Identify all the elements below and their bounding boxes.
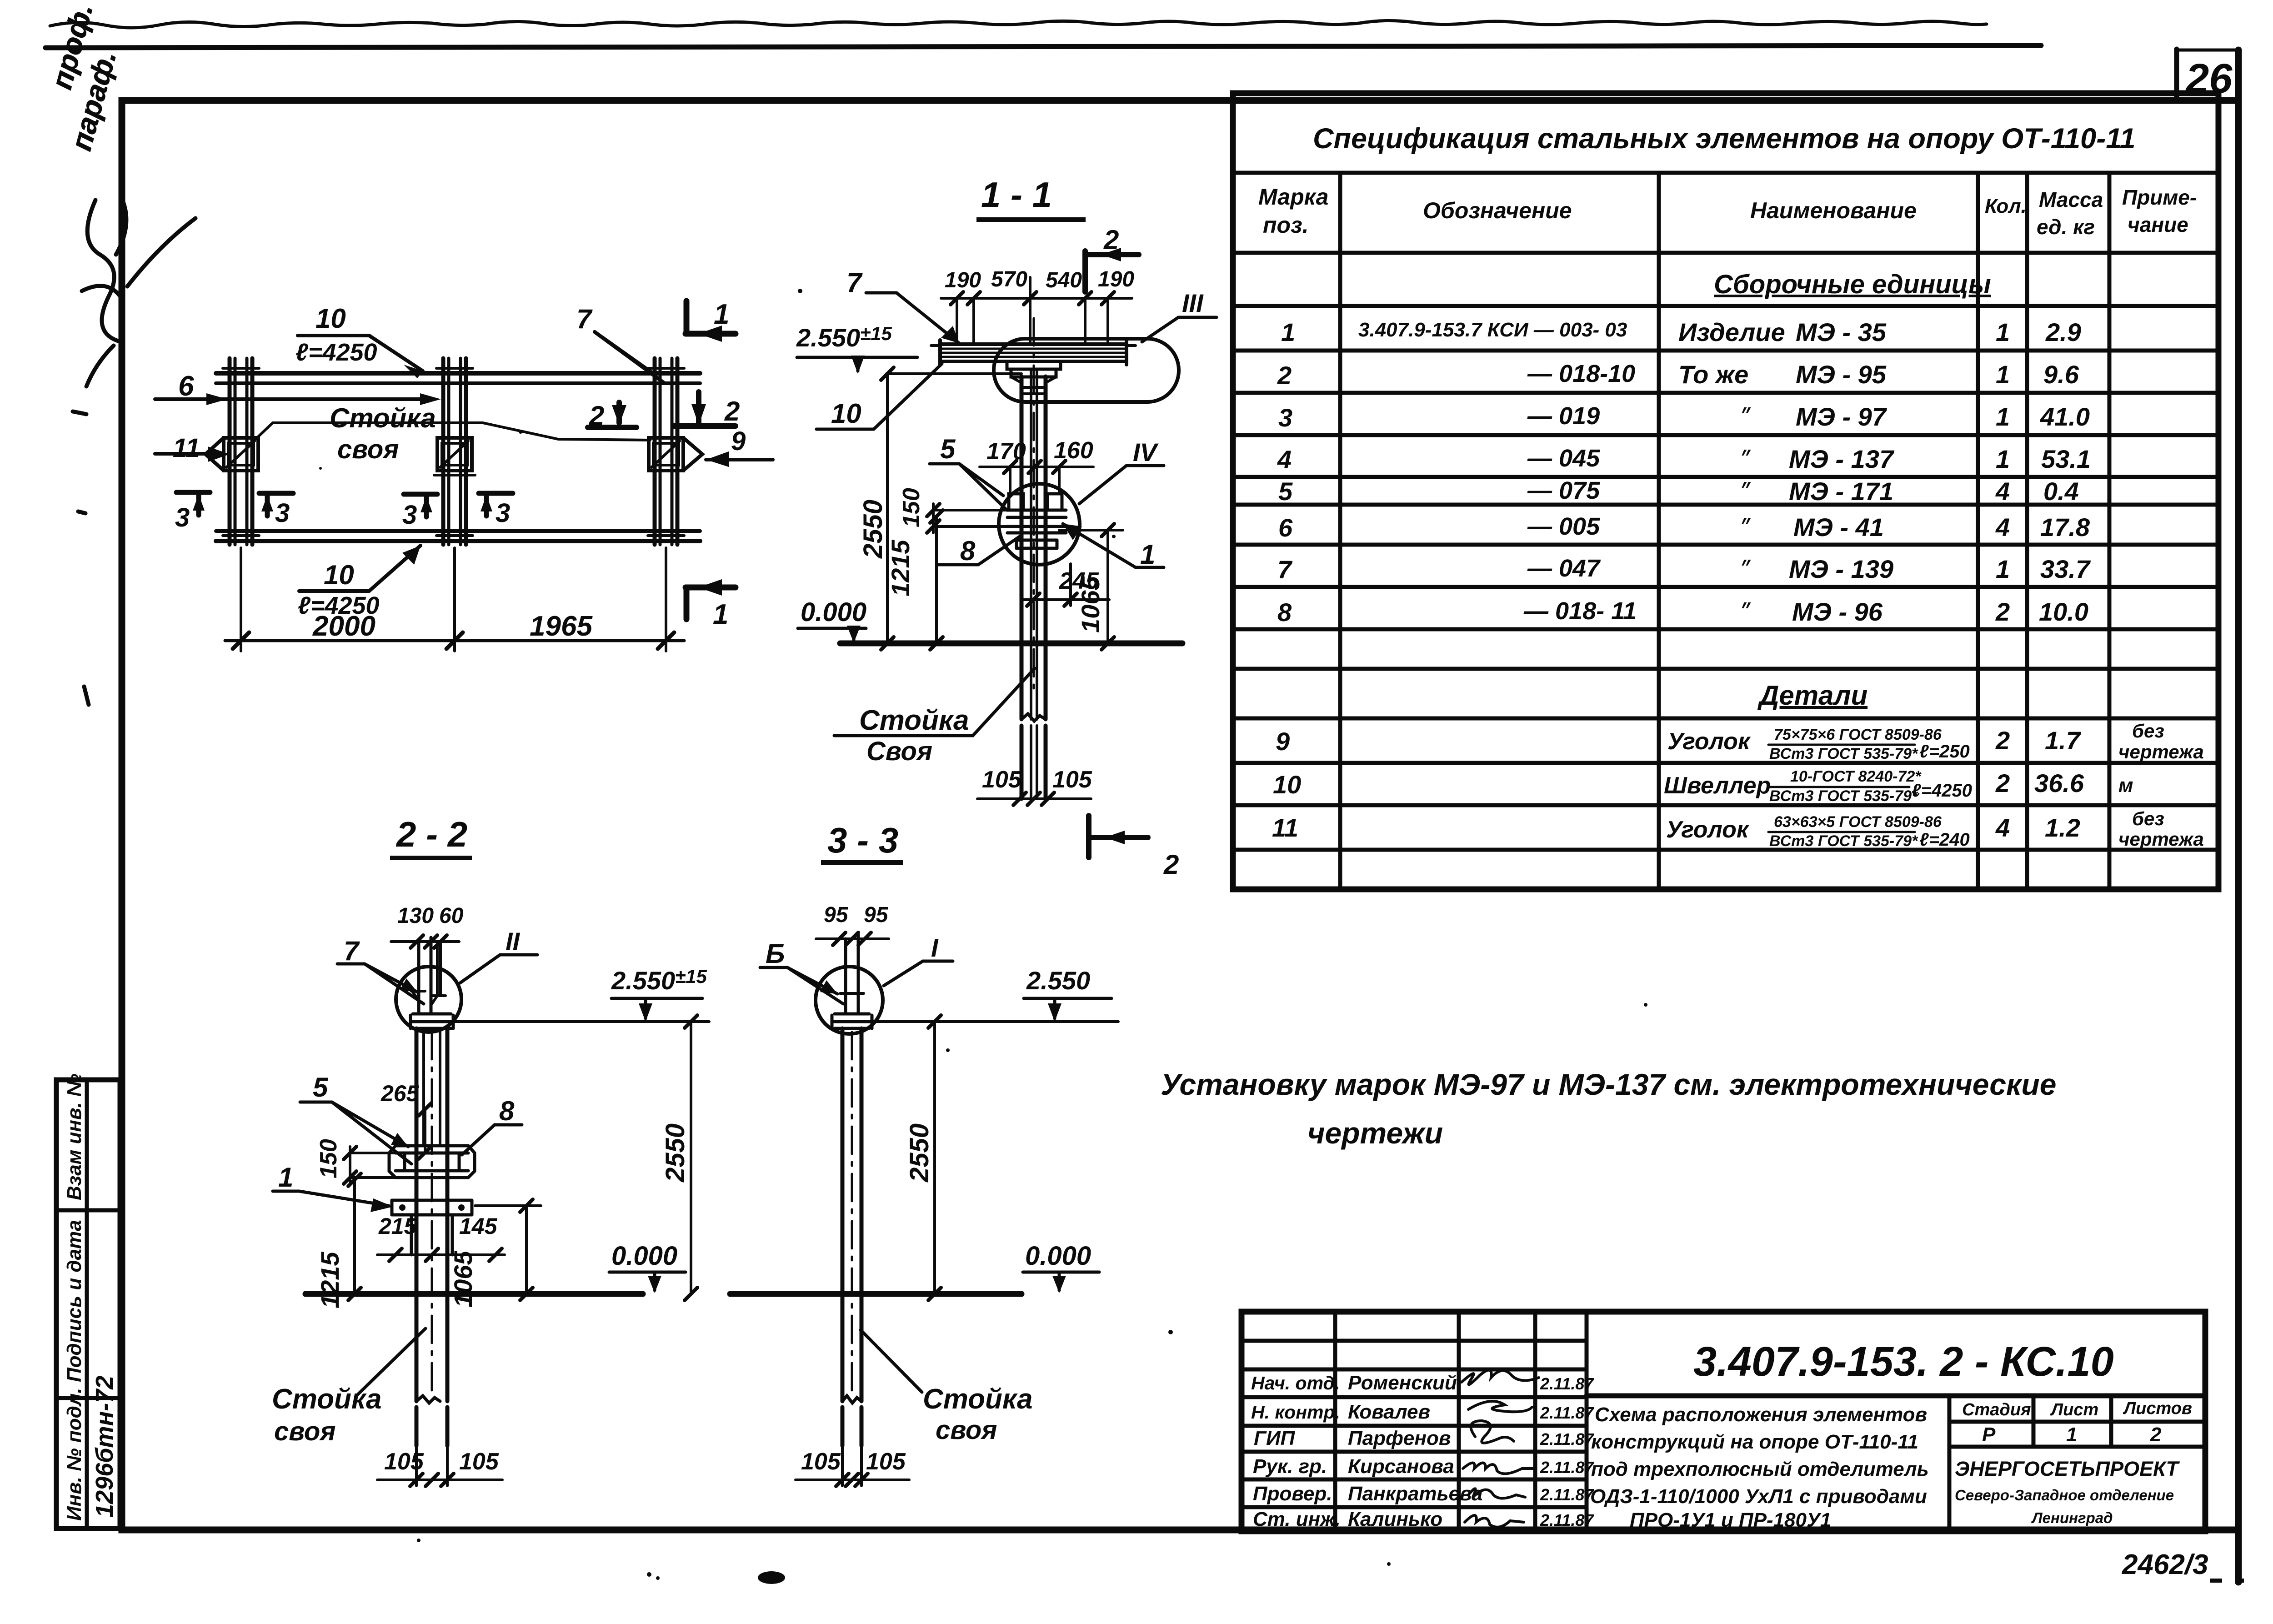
svg-text:Подпись и дата: Подпись и дата	[63, 1220, 85, 1382]
level 2.550±15	[796, 323, 1021, 374]
dim 105 105 (1-1)	[977, 767, 1092, 805]
svg-text:4: 4	[1277, 445, 1292, 474]
svg-text:Б: Б	[766, 938, 785, 969]
svg-text:1 - 1: 1 - 1	[981, 175, 1052, 215]
svg-text:95: 95	[824, 903, 849, 927]
row lines	[1233, 304, 2218, 308]
svg-text:״: ״	[1739, 480, 1751, 501]
svg-text:2: 2	[1995, 726, 2010, 755]
top dims 190 570 540 190	[941, 267, 1134, 344]
svg-text:Кирсанова: Кирсанова	[1348, 1455, 1454, 1478]
svg-text:Роменский: Роменский	[1348, 1372, 1457, 1394]
post pile 1 (stойка)	[223, 358, 259, 545]
title 2-2	[390, 814, 472, 860]
svg-text:3: 3	[496, 498, 510, 528]
level 2.550 (3-3)	[872, 966, 1118, 1022]
svg-text:Провер.: Провер.	[1253, 1483, 1332, 1505]
svg-text:чертежа: чертежа	[2118, 741, 2204, 762]
label 1 (1-1)	[1063, 524, 1164, 570]
svg-text:Калинько: Калинько	[1348, 1508, 1442, 1530]
svg-text:без: без	[2132, 720, 2164, 742]
svg-text:2.550: 2.550	[1026, 966, 1090, 995]
svg-text:IV: IV	[1133, 438, 1159, 466]
ground line (1-1)	[840, 641, 1182, 647]
svg-text:своя: своя	[337, 435, 399, 464]
svg-text:— 018-10: — 018-10	[1527, 360, 1635, 387]
svg-text:1: 1	[713, 599, 728, 630]
label 8 (1-1)	[939, 536, 1020, 566]
clamp (2-2, pos.5/8)	[389, 1146, 475, 1178]
svg-text:Марка: Марка	[1258, 184, 1328, 210]
label 7 (1-1)	[846, 267, 959, 343]
svg-text:7: 7	[344, 936, 360, 966]
note text	[1161, 1068, 2056, 1150]
svg-text:чертежа: чертежа	[2118, 828, 2204, 850]
label 11 with arrow	[155, 433, 230, 463]
svg-text:Листов: Листов	[2123, 1399, 2192, 1418]
svg-text:Ковалев: Ковалев	[1348, 1401, 1430, 1423]
svg-text:Приме-: Приме-	[2122, 185, 2197, 209]
svg-text:105: 105	[459, 1449, 499, 1475]
svg-text:— 019: — 019	[1527, 402, 1600, 430]
plan dimension 2000 / 1965	[225, 548, 684, 651]
svg-text:МЭ - 41: МЭ - 41	[1793, 513, 1884, 541]
svg-text:2: 2	[1995, 597, 2010, 626]
svg-text:чертежи: чертежи	[1307, 1116, 1443, 1150]
detail circle IV	[999, 438, 1164, 565]
detail circle II	[396, 927, 537, 1032]
svg-text:6: 6	[178, 371, 194, 402]
specification table	[1233, 93, 2218, 889]
svg-text:Швеллер: Швеллер	[1664, 772, 1771, 799]
svg-text:Масса: Масса	[2039, 188, 2103, 211]
svg-text:2.9: 2.9	[2045, 318, 2081, 346]
svg-text:МЭ - 137: МЭ - 137	[1789, 445, 1895, 473]
svg-text:8: 8	[499, 1096, 515, 1126]
svg-text:ВСт3 ГОСТ 535-79*: ВСт3 ГОСТ 535-79*	[1769, 745, 1918, 762]
dim 265 (2-2)	[381, 1081, 431, 1159]
ground line (2-2)	[305, 1291, 643, 1297]
svg-text:41.0: 41.0	[2040, 402, 2090, 431]
detail balloon III	[994, 289, 1217, 402]
label 5 (1-1)	[930, 434, 1007, 510]
svg-text:Наименование: Наименование	[1750, 198, 1917, 223]
svg-text:״: ״	[1739, 448, 1751, 469]
svg-text:чание: чание	[2128, 213, 2188, 236]
svg-text:2 - 2: 2 - 2	[396, 814, 467, 854]
svg-text:ℓ=4250: ℓ=4250	[295, 339, 377, 366]
svg-text:Ленинград: Ленинград	[2031, 1509, 2113, 1526]
scan artifact wavy top edge	[50, 20, 1987, 28]
table title row line	[1233, 171, 2218, 175]
dim 2550 (2-2)	[661, 1015, 697, 1300]
svg-text:2: 2	[1277, 361, 1292, 390]
svg-text:Парфенов: Парфенов	[1348, 1427, 1451, 1449]
svg-text:2.11.87: 2.11.87	[1540, 1430, 1594, 1449]
svg-text:Стойка: Стойка	[859, 705, 969, 736]
svg-text:под трехполюсный отделитель: под трехполюсный отделитель	[1591, 1458, 1929, 1480]
0.000 (3-3)	[1023, 1241, 1099, 1293]
svg-text:1065: 1065	[449, 1251, 477, 1308]
svg-text:0.000: 0.000	[801, 597, 866, 627]
svg-text:ВСт3 ГОСТ 535-79*: ВСт3 ГОСТ 535-79*	[1769, 832, 1918, 850]
collar (3-3)	[832, 1014, 872, 1028]
label 7 (2-2)	[337, 936, 424, 1004]
dim 245	[1023, 564, 1109, 606]
svg-text:1: 1	[2066, 1424, 2077, 1446]
svg-text:Установку марок МЭ-97 и МЭ-137: Установку марок МЭ-97 и МЭ-137 см. элект…	[1161, 1068, 2056, 1101]
svg-text:своя: своя	[274, 1417, 335, 1446]
label Б (3-3)	[760, 938, 843, 1004]
svg-text:2.11.87: 2.11.87	[1540, 1485, 1594, 1504]
pole (2-2)	[416, 1028, 447, 1446]
post pile 2	[436, 358, 473, 545]
label 1 (2-2)	[273, 1162, 393, 1212]
svg-text:570: 570	[991, 267, 1027, 291]
title block	[1242, 1312, 2205, 1531]
connector box on post3 (angle pos.9)	[649, 438, 702, 471]
svg-text:2.11.87: 2.11.87	[1540, 1403, 1594, 1422]
svg-text:10: 10	[1273, 770, 1301, 799]
svg-text:3 - 3: 3 - 3	[827, 820, 898, 860]
svg-text:3.407.9-153.7 КСИ — 003- 03: 3.407.9-153.7 КСИ — 003- 03	[1358, 319, 1627, 341]
svg-text:поз.: поз.	[1263, 212, 1309, 238]
svg-text:130: 130	[397, 904, 434, 928]
right area	[1587, 1393, 2205, 1398]
level 2.550±15 (2-2)	[453, 966, 709, 1022]
dim 105 105 (3-3)	[796, 1446, 909, 1486]
section mark 2 bottom	[1089, 816, 1179, 880]
svg-text:3: 3	[1278, 403, 1292, 432]
svg-text:1: 1	[1996, 445, 2010, 473]
svg-text:170: 170	[986, 438, 1026, 465]
scan artifact top rule line	[45, 45, 2041, 48]
svg-text:Рук. гр.: Рук. гр.	[1253, 1455, 1327, 1478]
svg-text:2: 2	[2150, 1424, 2162, 1446]
0.000 (2-2)	[609, 1241, 686, 1293]
svg-text:5: 5	[313, 1072, 329, 1103]
svg-text:9: 9	[1276, 727, 1290, 756]
svg-text:1: 1	[1996, 402, 2010, 431]
svg-text:1.7: 1.7	[2045, 726, 2082, 755]
svg-text:5: 5	[1278, 477, 1293, 506]
svg-text:— 047: — 047	[1527, 555, 1601, 582]
clamp assembly (pos.5/8)	[1007, 494, 1066, 548]
svg-text:Нач. отд.: Нач. отд.	[1251, 1373, 1340, 1393]
svg-text:״: ״	[1739, 406, 1751, 427]
mark 0.000 (1-1)	[798, 597, 866, 643]
section mark 1 top	[686, 299, 736, 342]
title 3-3	[821, 820, 903, 865]
collar (2-2)	[411, 1014, 453, 1028]
top stub (3-3)	[840, 935, 864, 1013]
svg-text:2: 2	[1995, 769, 2010, 797]
svg-text:— 005: — 005	[1527, 513, 1600, 540]
svg-text:150: 150	[898, 488, 925, 527]
svg-text:2462/3: 2462/3	[2122, 1549, 2208, 1580]
svg-text:״: ״	[1739, 516, 1751, 537]
svg-text:2550: 2550	[661, 1123, 690, 1183]
top dims 95 95	[816, 903, 889, 945]
svg-text:Инв. № подл.: Инв. № подл.	[63, 1388, 85, 1521]
svg-text:105: 105	[982, 767, 1022, 793]
top stub (pos.7)	[411, 937, 446, 1013]
svg-text:2550: 2550	[858, 500, 888, 559]
stойка своя (1-1)	[834, 668, 1035, 766]
svg-text:1: 1	[1996, 555, 2010, 583]
svg-text:1: 1	[1996, 360, 2010, 389]
svg-text:Спецификация стальных элемен: Спецификация стальных элементов на опору…	[1313, 123, 2136, 155]
svg-text:МЭ - 35: МЭ - 35	[1796, 318, 1887, 346]
svg-text:2550: 2550	[905, 1123, 934, 1183]
svg-text:10.0: 10.0	[2039, 597, 2088, 626]
svg-text:1: 1	[714, 299, 729, 330]
label 6 with leader arrows	[155, 371, 441, 405]
svg-text:ℓ=4250: ℓ=4250	[1912, 781, 1972, 801]
svg-text:МЭ - 96: МЭ - 96	[1792, 597, 1883, 626]
label 10 top with leader	[295, 303, 423, 378]
svg-text:1215: 1215	[886, 540, 915, 596]
svg-text:Обозначение: Обозначение	[1423, 198, 1572, 223]
stойка своя (2-2)	[272, 1328, 426, 1446]
dim 1065 (2-2)	[449, 1199, 541, 1308]
svg-text:1: 1	[278, 1162, 293, 1193]
svg-text:Северо-Западное отделение: Северо-Западное отделение	[1955, 1487, 2174, 1504]
section mark 2 top	[1085, 225, 1139, 292]
svg-text:м: м	[2118, 774, 2133, 797]
svg-text:160: 160	[1054, 437, 1093, 464]
svg-text:2000: 2000	[312, 611, 375, 642]
svg-text:60: 60	[439, 904, 464, 928]
svg-text:Уголок: Уголок	[1666, 817, 1750, 843]
svg-text:10: 10	[831, 398, 861, 429]
svg-text:Стойка: Стойка	[923, 1383, 1033, 1415]
handwriting top-left: проф/параф	[45, 0, 195, 705]
svg-text:1.2: 1.2	[2045, 813, 2080, 842]
svg-text:ℓ=250: ℓ=250	[1919, 742, 1970, 762]
section mark 2 middle	[588, 401, 636, 431]
label 8 (2-2)	[462, 1096, 522, 1155]
svg-text:Схема расположения элементов: Схема расположения элементов	[1595, 1403, 1927, 1426]
svg-text:— 075: — 075	[1527, 477, 1600, 504]
svg-text:2.11.87: 2.11.87	[1540, 1511, 1594, 1529]
title 1-1	[976, 175, 1086, 222]
connector box on post2	[434, 438, 475, 475]
svg-text:11: 11	[173, 433, 200, 463]
svg-text:7: 7	[1277, 555, 1293, 584]
svg-text:ед. кг: ед. кг	[2037, 215, 2095, 239]
svg-text:1965: 1965	[530, 611, 593, 642]
beam bottom (channel 10, pos.10)	[216, 531, 700, 541]
svg-text:105: 105	[384, 1449, 424, 1475]
svg-text:5: 5	[940, 434, 956, 464]
dim 1215 (2-2)	[315, 1173, 361, 1308]
beam top (channel 10, pos.10)	[216, 373, 700, 383]
svg-text:53.1: 53.1	[2041, 445, 2091, 473]
svg-text:Н. контр.: Н. контр.	[1251, 1402, 1340, 1423]
svg-text:4: 4	[1995, 477, 2010, 506]
vertical dim 2550 (1-1)	[858, 367, 894, 650]
svg-text:״: ״	[1739, 601, 1751, 622]
svg-text:Панкратьева: Панкратьева	[1348, 1483, 1483, 1505]
svg-text:10-ГОСТ 8240-72*: 10-ГОСТ 8240-72*	[1790, 768, 1922, 785]
svg-text:Уголок: Уголок	[1667, 728, 1751, 755]
svg-text:36.6: 36.6	[2034, 769, 2084, 797]
svg-text:1296бтн-72: 1296бтн-72	[91, 1376, 118, 1518]
svg-text:0.4: 0.4	[2043, 477, 2079, 506]
svg-text:Стойка: Стойка	[330, 403, 436, 433]
svg-text:Своя: Своя	[866, 737, 932, 766]
dim 105 105 (2-2)	[377, 1446, 502, 1486]
svg-text:8: 8	[960, 536, 976, 566]
svg-text:ЭНЕРГОСЕТЬПРОЕКТ: ЭНЕРГОСЕТЬПРОЕКТ	[1955, 1457, 2180, 1480]
label 10 (1-1)	[816, 364, 942, 429]
svg-text:4: 4	[1995, 813, 2010, 842]
section mark 1 bottom	[686, 579, 736, 630]
svg-text:105: 105	[866, 1449, 906, 1475]
svg-text:10: 10	[315, 303, 346, 334]
pole 1-1	[1007, 318, 1061, 799]
dim 1215 (1-1)	[886, 510, 943, 650]
pole (3-3)	[842, 1028, 861, 1446]
svg-text:215: 215	[378, 1213, 417, 1239]
svg-text:1065: 1065	[1076, 576, 1105, 633]
svg-text:145: 145	[459, 1213, 498, 1239]
svg-text:2: 2	[1103, 225, 1119, 255]
svg-text:1215: 1215	[315, 1252, 344, 1308]
svg-text:3: 3	[175, 503, 190, 532]
detail circle I	[816, 933, 953, 1034]
svg-text:Сборочные единицы: Сборочные единицы	[1714, 270, 1991, 299]
svg-text:МЭ - 97: МЭ - 97	[1796, 402, 1887, 431]
dims 215 145 (2-2)	[377, 1213, 505, 1261]
svg-text:Кол.: Кол.	[1985, 195, 2027, 217]
svg-text:11: 11	[1272, 813, 1298, 842]
svg-text:3.407.9-153. 2 - КС.10: 3.407.9-153. 2 - КС.10	[1693, 1338, 2114, 1385]
svg-text:ПРО-1У1 и ПР-180У1: ПРО-1У1 и ПР-180У1	[1630, 1509, 1831, 1531]
svg-text:540: 540	[1046, 268, 1082, 292]
svg-text:Ст. инж.: Ст. инж.	[1253, 1508, 1341, 1530]
top dims 130 60	[391, 904, 464, 948]
dim 2550 (3-3)	[905, 1015, 941, 1300]
svg-text:17.8: 17.8	[2040, 513, 2090, 541]
svg-text:2: 2	[1163, 849, 1179, 880]
svg-text:2: 2	[724, 396, 740, 426]
svg-text:7: 7	[576, 304, 593, 334]
svg-text:МЭ - 95: МЭ - 95	[1796, 360, 1887, 389]
svg-text:6: 6	[1278, 513, 1293, 542]
svg-text:105: 105	[1052, 767, 1092, 793]
stойка своя (3-3)	[861, 1330, 1033, 1445]
label 10 bottom with leader	[298, 546, 421, 619]
svg-text:I: I	[931, 933, 939, 962]
post pile 3	[648, 358, 684, 545]
svg-text:9: 9	[731, 426, 746, 456]
ground line (3-3)	[730, 1291, 1021, 1297]
svg-text:без: без	[2132, 808, 2164, 829]
svg-text:3: 3	[402, 500, 417, 530]
svg-text:33.7: 33.7	[2040, 555, 2091, 583]
svg-text:150: 150	[315, 1139, 342, 1178]
svg-text:2.11.87: 2.11.87	[1540, 1458, 1594, 1477]
svg-text:״: ״	[1739, 558, 1751, 579]
svg-text:10: 10	[324, 560, 354, 590]
svg-text:1: 1	[1140, 539, 1155, 570]
svg-text:8: 8	[1277, 598, 1292, 627]
svg-text:3: 3	[275, 498, 290, 528]
svg-text:1: 1	[1281, 318, 1295, 346]
svg-text:МЭ - 171: МЭ - 171	[1789, 477, 1893, 506]
svg-text:II: II	[506, 927, 521, 956]
label 5 (2-2)	[300, 1072, 411, 1164]
svg-text:МЭ - 139: МЭ - 139	[1789, 555, 1893, 583]
svg-text:Р: Р	[1982, 1424, 1996, 1446]
svg-text:190: 190	[1098, 267, 1134, 291]
svg-text:III: III	[1182, 289, 1204, 317]
svg-text:9.6: 9.6	[2043, 360, 2079, 389]
dim 170/160	[980, 437, 1093, 492]
svg-text:7: 7	[846, 267, 863, 298]
sheet number 26 box	[2177, 49, 2238, 102]
svg-text:Лист: Лист	[2050, 1400, 2098, 1419]
svg-text:63×63×5 ГОСТ 8509-86: 63×63×5 ГОСТ 8509-86	[1774, 813, 1942, 831]
svg-text:75×75×6 ГОСТ 8509-86: 75×75×6 ГОСТ 8509-86	[1774, 726, 1942, 743]
svg-text:ВСт3 ГОСТ 535-79*: ВСт3 ГОСТ 535-79*	[1769, 787, 1918, 805]
dim 150 (2-2)	[315, 1139, 396, 1184]
svg-text:2.11.87: 2.11.87	[1540, 1374, 1594, 1393]
dim 150 (1-1)	[898, 488, 1007, 533]
stойка своя label (plan)	[255, 403, 650, 464]
svg-text:190: 190	[945, 268, 981, 292]
svg-text:Изделие: Изделие	[1678, 318, 1785, 346]
cross-arm (traverse pos.7)	[931, 340, 1136, 365]
svg-text:ГИП: ГИП	[1254, 1427, 1296, 1449]
connector box on post1 (angle pos.11)	[205, 438, 258, 471]
bracket pos.1 (2-2)	[392, 1200, 472, 1255]
svg-text:4: 4	[1995, 513, 2010, 541]
svg-text:ОДЗ-1-110/1000 УхЛ1 с приводам: ОДЗ-1-110/1000 УхЛ1 с приводами	[1590, 1485, 1927, 1508]
column lines	[1338, 173, 1342, 889]
svg-text:0.000: 0.000	[1025, 1241, 1091, 1271]
svg-text:Стадия: Стадия	[1962, 1400, 2031, 1419]
section mark 2 right	[674, 392, 740, 426]
svg-text:Взам инв. №: Взам инв. №	[63, 1074, 85, 1200]
svg-text:конструкций на опоре ОТ-110-1: конструкций на опоре ОТ-110-11	[1591, 1431, 1918, 1453]
svg-text:1: 1	[1996, 318, 2010, 346]
label 7 (plan) with fork leader	[576, 304, 665, 383]
svg-text:105: 105	[801, 1449, 841, 1475]
signatures squiggles	[1462, 1370, 1539, 1527]
section marks 3 (four)	[175, 492, 513, 532]
header bottom	[1233, 251, 2218, 255]
svg-text:ℓ=240: ℓ=240	[1919, 830, 1970, 850]
svg-text:95: 95	[864, 903, 889, 927]
svg-text:То же: То же	[1678, 360, 1748, 389]
svg-text:— 045: — 045	[1527, 445, 1600, 472]
dim 1065 (1-1)	[1059, 524, 1123, 650]
left margin attribute boxes	[56, 1080, 120, 1529]
label 9 with arrow	[706, 426, 773, 467]
svg-text:0.000: 0.000	[611, 1241, 677, 1271]
svg-text:своя: своя	[936, 1415, 997, 1445]
svg-text:— 018- 11: — 018- 11	[1523, 597, 1637, 625]
svg-text:265: 265	[381, 1081, 420, 1106]
scan speckles	[319, 289, 2244, 1584]
svg-text:Детали: Детали	[1757, 680, 1867, 711]
